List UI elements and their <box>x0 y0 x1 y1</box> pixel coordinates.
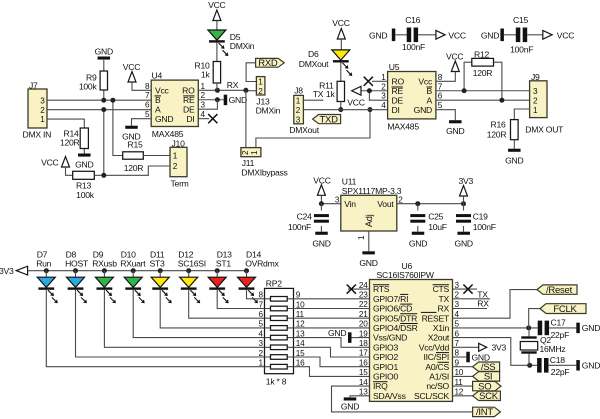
wire RP2 pin9 to U6 GPIO7 <box>294 298 370 300</box>
svg-text:GPIO2: GPIO2 <box>373 352 398 362</box>
node X1in junction <box>526 325 531 330</box>
svg-text:VCC: VCC <box>557 30 574 40</box>
svg-text:GPIO3: GPIO3 <box>373 342 398 352</box>
connector J7 DMX IN <box>28 89 47 128</box>
svg-text:GND: GND <box>505 155 523 165</box>
svg-text:C17: C17 <box>551 317 566 327</box>
svg-text:RXusb: RXusb <box>92 258 117 268</box>
LED D14 OVRdmx <box>244 268 249 273</box>
svg-text:19: 19 <box>359 329 368 338</box>
svg-text:4: 4 <box>201 110 206 119</box>
wire D13 to RP2 <box>217 290 264 309</box>
svg-text:DE: DE <box>392 96 404 106</box>
wire U6 X2out to crystal <box>453 338 538 366</box>
svg-text:SC16IS760IPW: SC16IS760IPW <box>377 270 435 280</box>
svg-text:3: 3 <box>258 339 263 348</box>
svg-text:SDA/Vss: SDA/Vss <box>373 391 406 401</box>
LED D5 DMXin green <box>208 30 226 40</box>
svg-text:GND: GND <box>582 323 600 333</box>
svg-text:GND: GND <box>95 47 113 57</box>
wire J13 pin2 to RX net <box>246 90 257 92</box>
resistor R16 120R <box>511 120 519 140</box>
svg-text:GND: GND <box>369 30 387 40</box>
svg-text:4: 4 <box>381 101 386 110</box>
svg-text:3: 3 <box>533 87 538 96</box>
wire J9 pin1 to R16 <box>514 109 529 120</box>
svg-text:RX: RX <box>438 304 450 314</box>
wire U11 Vout to 3V3 <box>397 203 464 205</box>
svg-text:VCC: VCC <box>41 157 58 167</box>
ground for R14 <box>78 154 91 157</box>
svg-text:4: 4 <box>455 310 460 319</box>
svg-text:1: 1 <box>258 359 263 368</box>
wire RP2 pin15 to U6 GPIO1 <box>294 357 370 367</box>
svg-text:100k: 100k <box>79 81 98 91</box>
svg-text:3V3: 3V3 <box>492 343 507 353</box>
svg-text:100k: 100k <box>76 190 95 200</box>
svg-text:VCC: VCC <box>332 18 349 28</box>
svg-text:DMXIbypass: DMXIbypass <box>241 167 287 177</box>
svg-text:24: 24 <box>359 281 368 290</box>
svg-text:VCC: VCC <box>446 52 463 62</box>
flag /SS <box>453 366 473 368</box>
J8 pin1 TX stub <box>303 99 323 101</box>
flag SI <box>453 375 473 377</box>
svg-text:GND: GND <box>122 132 140 142</box>
svg-text:Term: Term <box>171 179 189 189</box>
svg-text:100nF: 100nF <box>402 42 425 52</box>
svg-text:C24: C24 <box>297 212 312 222</box>
RP2 resistor row 5 <box>265 327 294 329</box>
wire D6 to R11 <box>340 63 342 82</box>
svg-text:Vcc/Vdd: Vcc/Vdd <box>419 342 450 352</box>
node A-R12 junction <box>499 98 504 103</box>
resistor R12 120R termination <box>464 62 472 91</box>
flag TXD <box>313 115 341 124</box>
wire D12 to RP2 <box>189 290 265 319</box>
svg-text:14: 14 <box>359 378 368 387</box>
U6 RX stub <box>453 308 488 310</box>
capacitor C19 100nF <box>463 204 465 211</box>
ground for U4 <box>132 119 152 126</box>
node RO-R10 junction <box>215 88 220 93</box>
svg-text:GND: GND <box>582 361 600 371</box>
svg-text:6: 6 <box>455 329 460 338</box>
svg-text:2: 2 <box>455 291 460 300</box>
svg-text:DMXout: DMXout <box>289 125 319 135</box>
svg-text:RP2: RP2 <box>266 278 282 288</box>
wire U6 IRQ to INT flag <box>332 386 473 412</box>
svg-text:ST3: ST3 <box>150 258 165 268</box>
svg-text:X2out: X2out <box>428 333 450 343</box>
svg-text:2: 2 <box>381 82 386 91</box>
U11 Adj pin to ground <box>368 231 370 251</box>
resistor R13 100k <box>73 171 95 179</box>
svg-text:3: 3 <box>455 300 460 309</box>
LED D8 HOST <box>73 268 78 273</box>
svg-text:GND: GND <box>328 328 346 338</box>
svg-text:21: 21 <box>359 310 368 319</box>
svg-text:3V3: 3V3 <box>459 176 474 186</box>
svg-text:10uF: 10uF <box>428 222 447 232</box>
svg-text:3: 3 <box>455 281 460 290</box>
regulator U11 SPX1117MP-3.3 <box>341 195 397 231</box>
capacitor C17 22pF <box>538 321 543 336</box>
svg-text:HOST: HOST <box>65 258 89 268</box>
svg-text:IRQ: IRQ <box>373 381 388 391</box>
svg-text:Run: Run <box>36 258 51 268</box>
wire J7 pin1 to R14 <box>47 119 84 128</box>
svg-text:J8: J8 <box>294 85 303 95</box>
wire RX net down to J11 <box>245 90 247 147</box>
wire D7 to RP2 <box>46 290 264 367</box>
svg-text:RX: RX <box>227 80 239 90</box>
svg-text:5: 5 <box>438 101 443 110</box>
svg-text:X1in: X1in <box>433 323 450 333</box>
svg-text:22pF: 22pF <box>551 367 570 377</box>
node DI-bypass junction <box>368 107 373 112</box>
wire U4 DE tied to RE <box>198 100 217 109</box>
svg-text:6: 6 <box>438 92 443 101</box>
node Vin-C24 junction <box>319 201 324 206</box>
svg-text:D6: D6 <box>308 49 319 59</box>
flag FCLK <box>540 304 586 314</box>
wire J7 pin3 to U4 B <box>47 99 151 101</box>
svg-text:3: 3 <box>296 115 301 124</box>
wire VCC to R13 <box>66 167 73 175</box>
svg-text:6: 6 <box>145 101 150 110</box>
LED D11 ST3 <box>158 268 163 273</box>
svg-text:R16: R16 <box>490 120 505 130</box>
svg-text:C16: C16 <box>405 15 420 25</box>
svg-text:MAX485: MAX485 <box>152 129 184 139</box>
svg-text:A: A <box>155 105 161 115</box>
RP2 resistor row 3 <box>265 346 294 348</box>
crystal Q2 16MHz <box>528 328 530 336</box>
svg-text:GND: GND <box>229 95 247 105</box>
svg-text:1: 1 <box>258 78 263 87</box>
svg-text:C18: C18 <box>550 355 565 365</box>
svg-text:GPIO4/DSR: GPIO4/DSR <box>373 323 418 333</box>
svg-text:Vin: Vin <box>344 199 356 209</box>
svg-text:SC16SI: SC16SI <box>178 258 206 268</box>
wire A to termination net <box>103 110 105 176</box>
svg-text:5: 5 <box>258 320 263 329</box>
svg-text:C25: C25 <box>428 212 443 222</box>
svg-text:10: 10 <box>455 368 464 377</box>
node A junction <box>101 107 106 112</box>
svg-text:GND: GND <box>341 402 359 412</box>
svg-text:100nF: 100nF <box>473 222 496 232</box>
svg-text:3: 3 <box>381 92 386 101</box>
node Vout-C19 junction <box>461 201 466 206</box>
svg-text:16: 16 <box>296 359 305 368</box>
RP2 resistor row 8 <box>265 298 294 300</box>
svg-text:J9: J9 <box>531 72 540 82</box>
U6 TX stub <box>453 298 491 300</box>
RP2 resistor row 1 <box>265 366 294 368</box>
svg-text:A0/CS: A0/CS <box>425 362 449 372</box>
svg-text:GND: GND <box>481 30 499 40</box>
svg-text:7: 7 <box>258 300 263 309</box>
svg-text:4: 4 <box>258 329 263 338</box>
resistor R10 1k <box>213 62 220 84</box>
svg-text:VCC: VCC <box>347 97 364 107</box>
svg-text:Vout: Vout <box>377 199 394 209</box>
ground for U5 <box>436 110 455 121</box>
svg-text:/INT: /INT <box>476 407 493 418</box>
wire R13 to J10 pin2 <box>94 166 170 175</box>
svg-text:100nF: 100nF <box>510 44 533 54</box>
svg-text:100nF: 100nF <box>288 222 311 232</box>
svg-text:VCC: VCC <box>123 62 140 72</box>
svg-text:8: 8 <box>145 82 150 91</box>
resistor network RP2 1k*8 <box>265 288 294 373</box>
wire U5 A to J9 pin2 <box>436 99 530 101</box>
svg-text:9: 9 <box>455 358 460 367</box>
LED D9 RXusb <box>102 268 107 273</box>
svg-text:2: 2 <box>533 96 538 105</box>
svg-text:2: 2 <box>258 87 263 96</box>
U6 RTS unused stub <box>348 288 370 290</box>
flag SCK <box>453 395 473 397</box>
svg-text:1: 1 <box>533 106 538 115</box>
svg-text:13: 13 <box>359 388 368 397</box>
wire D8 to RP2 <box>76 290 265 357</box>
node RX-J13 junction <box>243 88 248 93</box>
svg-text:1k: 1k <box>201 69 211 79</box>
svg-text:11: 11 <box>296 310 305 319</box>
svg-text:DMXin: DMXin <box>256 105 281 115</box>
svg-text:3: 3 <box>335 196 340 205</box>
node Vout-C25 junction <box>415 201 420 206</box>
svg-text:2: 2 <box>40 106 45 115</box>
op-amp U6 SC16IS760IPW <box>370 280 453 402</box>
svg-text:TX: TX <box>313 89 324 99</box>
svg-text:3: 3 <box>201 101 206 110</box>
svg-text:3V3: 3V3 <box>0 266 14 276</box>
capacitor C24 100nF <box>320 204 322 211</box>
wire RP2 pin13 to U6 GPIO3 <box>294 338 370 348</box>
LED D13 ST1 <box>215 268 220 273</box>
svg-text:MAX485: MAX485 <box>387 121 419 131</box>
svg-text:FCLK: FCLK <box>553 304 577 315</box>
wire U4 RE to ground <box>198 99 223 101</box>
wire D14 to RP2 <box>247 290 265 299</box>
LED D10 RXuart <box>131 268 136 273</box>
svg-text:RTS: RTS <box>373 284 390 294</box>
svg-text:GPIO5/DTR: GPIO5/DTR <box>373 313 417 323</box>
ground for U6 SDA pin13 <box>350 396 370 398</box>
svg-text:1: 1 <box>40 115 45 124</box>
LED D7 Run <box>44 268 49 273</box>
svg-text:J10: J10 <box>172 139 186 149</box>
node B-R12 junction <box>462 88 467 93</box>
U6 label overlines <box>373 284 389 286</box>
node DI-R11 junction <box>338 107 343 112</box>
op-amp U5 MAX485 driver <box>388 72 436 119</box>
svg-text:GND: GND <box>472 352 490 362</box>
svg-text:7: 7 <box>455 339 460 348</box>
wire D5 to R10 <box>216 43 218 62</box>
svg-text:GPIO1: GPIO1 <box>373 362 398 372</box>
svg-text:DI: DI <box>392 105 400 115</box>
connector J11 DMXIbypass <box>241 148 261 157</box>
svg-text:Adj: Adj <box>364 214 374 227</box>
svg-text:120R: 120R <box>473 68 493 78</box>
3V3 arrow for U6 Vcc <box>453 346 479 348</box>
wire J7 pin2 to U4 A <box>47 109 151 111</box>
svg-text:15: 15 <box>296 349 305 358</box>
svg-text:22: 22 <box>359 300 368 309</box>
svg-text:GPIO0: GPIO0 <box>373 372 398 382</box>
wire RP2 pin16 to U6 GPIO0 <box>294 367 370 377</box>
svg-text:GPIO7/RI: GPIO7/RI <box>373 294 408 304</box>
svg-text:SPX1117MP-3.3: SPX1117MP-3.3 <box>342 186 402 196</box>
svg-text:2: 2 <box>241 150 250 155</box>
svg-text:RXD: RXD <box>258 58 278 69</box>
wire J8 pin2 to U5 DI <box>303 109 387 111</box>
svg-text:GND: GND <box>409 238 427 248</box>
svg-text:1k * 8: 1k * 8 <box>266 376 287 386</box>
svg-text:1: 1 <box>173 152 178 161</box>
RP2 resistor row 6 <box>265 317 294 319</box>
wire 3V3 LED rail <box>28 270 247 272</box>
svg-text:RX: RX <box>477 299 489 309</box>
svg-text:DMX OUT: DMX OUT <box>525 124 564 134</box>
svg-text:nc/SO: nc/SO <box>426 381 449 391</box>
LED D6 DMXout yellow <box>332 50 350 60</box>
svg-text:A: A <box>427 96 433 106</box>
wire D10 to RP2 <box>133 290 264 338</box>
U5 DE tied to RE <box>369 91 387 100</box>
svg-text:GPIO6/CD: GPIO6/CD <box>373 304 412 314</box>
svg-text:10: 10 <box>296 300 305 309</box>
svg-text:120R: 120R <box>487 129 507 139</box>
svg-text:RXuart: RXuart <box>120 258 146 268</box>
capacitor C18 22pF <box>537 358 542 373</box>
svg-text:RO: RO <box>182 86 195 96</box>
RP2 resistor row 7 <box>265 308 294 310</box>
wire RP2 pin12 to U6 GPIO4 <box>294 327 370 329</box>
wire D11 to RP2 <box>160 290 264 328</box>
connector J10 Term <box>170 147 187 176</box>
wire U4 RO to RX net <box>198 89 246 91</box>
svg-text:5: 5 <box>145 110 150 119</box>
svg-text:1: 1 <box>381 73 386 82</box>
RP2 resistor row 2 <box>265 356 294 358</box>
ground for R16 <box>508 149 521 152</box>
svg-text:2: 2 <box>296 106 301 115</box>
flag /Reset <box>537 285 577 294</box>
svg-text:2: 2 <box>173 162 178 171</box>
connector J8 DMXout <box>294 95 304 123</box>
svg-text:20: 20 <box>359 320 368 329</box>
svg-text:6: 6 <box>258 310 263 319</box>
svg-text:1k: 1k <box>326 89 336 99</box>
svg-text:22pF: 22pF <box>551 330 570 340</box>
svg-text:U11: U11 <box>342 176 357 186</box>
op-amp U4 MAX485 receiver <box>151 80 198 126</box>
svg-text:13: 13 <box>296 329 305 338</box>
capacitor C25 10uF <box>417 204 419 211</box>
svg-text:17: 17 <box>359 349 368 358</box>
flag RXD <box>256 58 285 67</box>
svg-text:GND: GND <box>455 238 473 248</box>
node X2out junction <box>527 363 532 368</box>
svg-text:C19: C19 <box>473 212 488 222</box>
LED D12 SC16SI <box>186 268 191 273</box>
wire RP2 pin14 to U6 GPIO2 <box>294 347 370 357</box>
svg-text:SCK: SCK <box>479 391 499 402</box>
U5 RE tied to VCC <box>361 90 388 92</box>
svg-text:GND: GND <box>312 238 330 248</box>
svg-text:TX: TX <box>439 294 450 304</box>
svg-text:GND: GND <box>446 126 464 136</box>
U4 DI unused stub <box>198 118 209 120</box>
wire RP2 pin11 to U6 GPIO5 <box>294 317 370 319</box>
svg-text:11: 11 <box>455 378 464 387</box>
svg-text:OVRdmx: OVRdmx <box>245 258 279 268</box>
svg-text:SCL/SCK: SCL/SCK <box>414 391 450 401</box>
svg-text:18: 18 <box>359 339 368 348</box>
svg-text:U4: U4 <box>152 70 163 80</box>
svg-text:U5: U5 <box>389 62 400 72</box>
svg-text:2: 2 <box>201 91 206 100</box>
resistor R9 100k <box>103 60 105 71</box>
svg-text:3: 3 <box>40 96 45 105</box>
svg-text:TXD: TXD <box>319 114 338 125</box>
ground for U4 RE/DE <box>224 95 228 106</box>
node B-R15 junction <box>110 98 115 103</box>
svg-text:5: 5 <box>455 320 460 329</box>
wire R15 to J10 pin1 <box>143 155 170 157</box>
wire B to R15 <box>113 100 123 155</box>
wire RP2 pin10 to U6 GPIO6 <box>294 308 370 310</box>
svg-text:VCC: VCC <box>313 176 330 186</box>
node RE-DE junction U5 <box>367 88 372 93</box>
connector J13 DMXin <box>256 77 265 95</box>
node R9-B junction <box>101 98 106 103</box>
resistor R15 120R <box>123 152 144 159</box>
svg-text:7: 7 <box>438 82 443 91</box>
svg-text:J7: J7 <box>29 81 38 91</box>
svg-text:12: 12 <box>455 388 464 397</box>
flag /INT <box>473 407 501 416</box>
wire RXD to J13 pin1 <box>246 63 256 82</box>
svg-text:DMXout: DMXout <box>299 59 329 69</box>
svg-text:ST1: ST1 <box>216 258 231 268</box>
svg-text:CTS: CTS <box>433 284 450 294</box>
svg-text:7: 7 <box>145 91 150 100</box>
svg-text:A1/SI: A1/SI <box>429 372 449 382</box>
svg-text:8: 8 <box>455 349 460 358</box>
svg-text:16MHz: 16MHz <box>540 344 566 354</box>
svg-text:1: 1 <box>296 96 301 105</box>
ground for U6 Vss pin19 <box>352 337 370 339</box>
svg-text:1: 1 <box>357 235 366 240</box>
svg-text:8: 8 <box>258 291 263 300</box>
node R13-term junction <box>101 173 106 178</box>
resistor R11 1k <box>337 81 344 101</box>
svg-text:Vss/GND: Vss/GND <box>373 333 407 343</box>
svg-text:1: 1 <box>201 82 206 91</box>
svg-text:2: 2 <box>258 349 263 358</box>
svg-text:IIC/SPI: IIC/SPI <box>424 352 449 362</box>
svg-text:DMX IN: DMX IN <box>23 129 52 139</box>
svg-text:RESET: RESET <box>422 313 450 323</box>
svg-text:R12: R12 <box>474 50 489 60</box>
